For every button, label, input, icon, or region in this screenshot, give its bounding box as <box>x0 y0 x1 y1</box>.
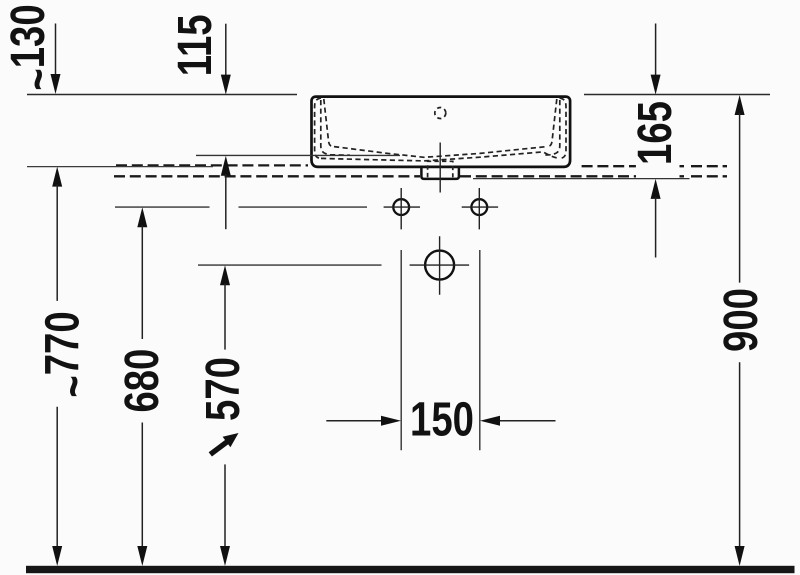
dimension 150 right shaft <box>498 420 556 422</box>
label 165 <box>628 101 682 165</box>
dimension 570 upper shaft <box>224 283 226 349</box>
svg-text:115: 115 <box>168 14 222 76</box>
countertop lower dashed line mid <box>460 175 636 177</box>
top reference line left segment <box>27 94 297 96</box>
dimension ~770 upper shaft <box>56 185 58 301</box>
dimension 165 upper line <box>655 24 657 77</box>
faucet hole right circle <box>471 199 487 215</box>
dimension 680 bottom arrow down <box>137 546 147 566</box>
label ~770 <box>35 311 100 397</box>
svg-text:570: 570 <box>196 357 250 421</box>
dimension 115 lower shaft <box>225 174 227 229</box>
dimension 900 lower shaft <box>739 362 741 548</box>
countertop upper dashed line left <box>116 164 308 166</box>
dimension ~130 arrow down <box>51 74 61 94</box>
165 lower reference line y=178.6 <box>473 178 690 180</box>
dimension 900 upper shaft <box>739 113 741 283</box>
faucet hole left crosshair <box>384 188 420 229</box>
570 reference line y=265 <box>198 264 382 266</box>
basin bowl bottom lower dashed line <box>321 152 560 161</box>
dimension ~130 line <box>55 24 57 77</box>
basin inner wall contour left middle <box>321 100 350 155</box>
dimension 570 bottom arrow down <box>220 546 230 566</box>
basin inner wall contour right inner slant <box>547 99 557 147</box>
~770 thin reference line y=166.4 <box>27 166 213 168</box>
dimension 680 arrow up <box>137 207 147 227</box>
floor line <box>26 566 795 573</box>
top reference line right segment <box>584 94 770 96</box>
drain box below basin <box>421 166 459 179</box>
label 150 <box>410 392 474 446</box>
dimension 900 bottom arrow down <box>735 546 745 566</box>
svg-text:680: 680 <box>115 349 169 413</box>
dimension 115 arrow down <box>221 75 231 95</box>
dimension ~770 bottom arrow down <box>52 546 62 566</box>
drain centerline <box>439 143 441 193</box>
basin bowl bottom upper dashed line <box>334 147 547 158</box>
dimension 165 lower shaft <box>655 197 657 258</box>
label 680 <box>115 349 169 413</box>
dimension ~770 upper arrow up <box>52 167 62 187</box>
dimension 680 upper shaft <box>141 225 143 339</box>
drain circle crosshair <box>410 236 470 294</box>
dimension ~770 lower shaft <box>56 407 58 548</box>
150 extension line right <box>479 250 481 450</box>
680 reference line y=207 <box>115 206 367 208</box>
label ~130 <box>1 4 65 90</box>
note arrow diagonal <box>210 433 238 454</box>
dimension 150 left arrow right <box>381 416 401 426</box>
countertop upper dashed line right <box>582 165 636 167</box>
washbasin outline <box>312 97 571 167</box>
countertop lower dashed line <box>114 175 420 177</box>
dimension 570 lower shaft <box>224 464 226 548</box>
dimension 900 arrow up <box>735 95 745 115</box>
countertop lower dash-dot right <box>680 175 728 177</box>
drain circle <box>425 251 454 280</box>
150 extension line left <box>400 250 402 450</box>
svg-text:165: 165 <box>628 101 682 165</box>
label 900 <box>714 288 768 352</box>
faucet hole right crosshair <box>462 188 498 229</box>
basin inner wall contour left outer <box>315 98 321 158</box>
dimension 150 right arrow left <box>480 416 500 426</box>
dimension 680 lower shaft <box>141 423 143 549</box>
basin inner wall contour left inner slant <box>324 99 334 147</box>
svg-text:150: 150 <box>410 392 474 446</box>
dimension 150 left shaft <box>326 420 383 422</box>
dimension 570 arrow up <box>220 265 230 285</box>
basin inner wall contour right outer <box>560 98 567 158</box>
svg-text:~770: ~770 <box>35 311 100 397</box>
dimension 115 lower arrow up <box>221 156 231 176</box>
svg-text:900: 900 <box>714 288 768 352</box>
label 570 <box>196 357 250 421</box>
washbasin overflow hole (dashed circle) <box>435 108 446 119</box>
drain hidden pipe dashed outline <box>428 161 453 177</box>
basin inner wall contour right middle <box>543 100 560 155</box>
reference line at basin underside level y=155.5 <box>196 154 400 156</box>
dimension 115 line <box>225 24 227 76</box>
countertop upper dash-dot right <box>680 165 728 167</box>
dimension 165 lower arrow up <box>651 179 661 199</box>
dimension 165 arrow down <box>651 75 661 95</box>
label 115 <box>168 14 222 76</box>
faucet hole left circle <box>393 199 409 215</box>
